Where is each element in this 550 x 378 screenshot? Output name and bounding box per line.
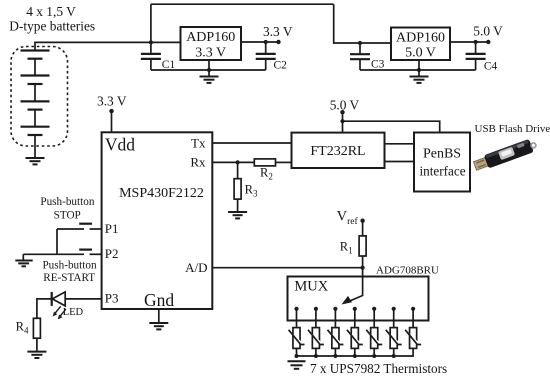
terminal 5.0V FT supply (340, 110, 344, 114)
capacitor C1 (150, 42, 152, 53)
svg-text:MSP430F2122: MSP430F2122 (119, 186, 204, 201)
regulator U2 ADP160 5.0V (391, 28, 450, 61)
wire cell3 to cell4 (34, 110, 36, 127)
thermistor RT2 (308, 328, 324, 349)
USB flash drive icon (473, 137, 538, 172)
svg-text:5.0 V: 5.0 V (405, 46, 436, 61)
wire 5.0V to FT232RL top (342, 112, 344, 132)
svg-text:ADG708BRU: ADG708BRU (376, 264, 439, 276)
svg-text:Gnd: Gnd (144, 290, 174, 310)
wire R2 to FT232RL (276, 161, 292, 163)
svg-text:P3: P3 (105, 290, 119, 305)
thermistor RT1 (289, 328, 305, 349)
ground R4 (27, 352, 46, 358)
svg-text:USB Flash Drive: USB Flash Drive (475, 123, 550, 135)
svg-text:Vdd: Vdd (105, 135, 135, 155)
wire U2 output to 5.0V terminal (450, 41, 488, 43)
wire thermistor 2 stub (315, 348, 317, 356)
svg-text:FT232RL: FT232RL (310, 144, 365, 159)
wire R3 stem (237, 162, 239, 178)
ground R3 (228, 212, 247, 218)
svg-text:C2: C2 (274, 60, 288, 72)
node rail junction 3 (333, 354, 337, 358)
node rail junction 6 (392, 354, 396, 358)
LED D1 (52, 292, 65, 306)
wire channel 4 to thermistor (354, 309, 356, 328)
wire thermistor 6 stub (393, 348, 395, 356)
resistor R3 (234, 179, 241, 199)
wire channel 6 to thermistor (393, 309, 395, 328)
IC U4 FT232RL (292, 133, 385, 168)
wire FT232RL to PenBS upper (385, 143, 415, 145)
push-button S1 STOP (57, 228, 84, 230)
wire riser to top rail (150, 4, 152, 42)
wire U1 gnd pin stem (208, 60, 210, 77)
wire R3 to ground (237, 199, 239, 212)
node U1 gnd rail junction (207, 68, 211, 72)
wire buttons to ground (22, 254, 24, 260)
node C4 junction (474, 40, 478, 44)
svg-text:P1: P1 (105, 221, 119, 236)
LED emission arrow 2 (58, 309, 66, 319)
capacitor C2 (265, 42, 267, 53)
svg-text:RE-START: RE-START (43, 272, 95, 284)
ground U2 (410, 77, 429, 83)
node rail junction 1 (295, 354, 299, 358)
wire cell2 to cell3 (34, 84, 36, 101)
node rail junction 2 (314, 354, 318, 358)
node rail junction 5 (372, 354, 376, 358)
node 5.0V branch (340, 119, 344, 123)
wire channel 3 to thermistor (334, 309, 336, 328)
node rail junction 4 (353, 354, 357, 358)
wire U1 output to 3.3V terminal (241, 41, 279, 43)
LED cathode bar (51, 292, 53, 306)
node battery rail / C1 junction (149, 40, 153, 44)
wire thermistor 3 stub (334, 348, 336, 356)
svg-text:STOP: STOP (54, 209, 81, 221)
module U5 PenBS interface (414, 133, 470, 192)
svg-text:C3: C3 (371, 59, 385, 71)
wire Rx to R2 (212, 161, 254, 163)
node A/D junction (361, 266, 365, 270)
push-button S2 RE-START (23, 253, 84, 255)
wire LED to R4 (37, 299, 52, 318)
svg-text:ADP160: ADP160 (396, 31, 445, 46)
thermistor RT5 (366, 328, 382, 349)
wire channel 7 to thermistor (412, 309, 414, 328)
node U2 gnd rail junction (417, 68, 421, 72)
svg-text:3.3 V: 3.3 V (195, 46, 226, 61)
wire channel 2 to thermistor (315, 309, 317, 328)
ground push-buttons (15, 261, 32, 267)
terminal 5.0V output (486, 40, 490, 44)
node C3 junction (358, 41, 362, 45)
node C2 junction (264, 40, 268, 44)
wire battery negative to ground (34, 135, 36, 158)
svg-text:Rx: Rx (190, 154, 206, 169)
capacitor C3 (359, 43, 361, 53)
regulator U1 ADP160 3.3V (181, 27, 242, 60)
svg-text:Tx: Tx (191, 136, 206, 151)
ground battery (26, 158, 45, 164)
battery cell 3 (21, 101, 50, 109)
svg-text:5.0 V: 5.0 V (330, 97, 360, 112)
svg-text:7 x UPS7982 Thermistors: 7 x UPS7982 Thermistors (310, 361, 447, 376)
svg-text:3.3 V: 3.3 V (263, 24, 293, 39)
LED emission arrow 1 (53, 306, 61, 316)
resistor R1 (359, 236, 366, 256)
wire R4 to ground (36, 338, 38, 351)
wire FT232RL to PenBS lower (385, 161, 415, 163)
resistor R4 (33, 318, 40, 338)
wire cell1 to cell2 (34, 59, 36, 76)
wire MCU gnd stem (158, 309, 160, 323)
node MUX channel 5 (372, 307, 376, 311)
node MUX channel 2 (314, 307, 318, 311)
wire ground rail under U2 (360, 69, 476, 71)
wire top rail (151, 3, 334, 5)
battery cell 4 (21, 127, 50, 135)
terminal 3.3V MCU supply (109, 109, 113, 113)
battery cell 2 (21, 76, 50, 85)
wire branch to PenBS top (343, 121, 440, 132)
capacitor C4 (475, 42, 477, 53)
svg-text:4 x 1,5 V: 4 x 1,5 V (26, 4, 76, 19)
ground MCU (149, 323, 168, 329)
node MUX channel 4 (353, 307, 357, 311)
node MUX channel 3 (333, 307, 337, 311)
wire channel 5 to thermistor (373, 309, 375, 328)
thermistor RT3 (328, 328, 344, 349)
terminal Vref (360, 219, 364, 223)
svg-text:P2: P2 (105, 246, 119, 261)
svg-text:Push-button: Push-button (42, 260, 96, 272)
node MUX channel 1 (294, 307, 298, 311)
MCU U3 MSP430F2122 (102, 132, 213, 309)
svg-text:5.0 V: 5.0 V (473, 24, 503, 39)
wire R1 to A/D node (362, 256, 364, 268)
wire 3.3V to Vdd (111, 111, 113, 132)
MUX selector wire with arrow (342, 268, 363, 305)
thermistor RT4 (347, 328, 363, 349)
wire U2 gnd pin stem (418, 60, 420, 77)
svg-text:MUX: MUX (294, 279, 328, 295)
battery cell 1 (21, 51, 50, 59)
node MUX channel 6 (392, 307, 396, 311)
wire thermistor 5 stub (373, 348, 375, 356)
thermistor RT6 (386, 328, 402, 349)
wire P3 to LED (65, 298, 101, 300)
svg-text:interface: interface (419, 164, 465, 179)
wire Tx to FT232RL (212, 142, 291, 144)
ground U1 (200, 77, 219, 83)
resistor R2 (254, 159, 275, 166)
wire A/D to R1 node (212, 267, 362, 269)
ground thermistors (288, 361, 306, 369)
terminal 3.3V output (276, 40, 280, 44)
wire top rail drop to regulator 2 input (334, 4, 391, 43)
svg-text:LED: LED (63, 307, 84, 318)
wire ground rail under U1 (151, 69, 266, 71)
wire thermistor bottom rail (297, 348, 414, 356)
svg-text:3.3 V: 3.3 V (97, 94, 127, 109)
battery pack BT1 dashed enclosure (11, 47, 68, 147)
thermistor RT7 (405, 328, 421, 349)
svg-text:A/D: A/D (185, 260, 207, 275)
svg-text:D-type batteries: D-type batteries (9, 19, 95, 34)
svg-text:PenBS: PenBS (423, 147, 461, 162)
wire S1 to S2 left link (56, 229, 58, 254)
node MUX channel 7 (411, 307, 415, 311)
wire thermistor 4 stub (354, 348, 356, 356)
MUX U6 ADG708BRU (288, 277, 429, 321)
wire channel 1 to thermistor (296, 309, 298, 328)
wire Vref to R1 (362, 221, 364, 236)
node Rx / R3 junction (236, 160, 240, 164)
svg-text:C4: C4 (484, 60, 498, 72)
svg-text:ADP160: ADP160 (186, 30, 235, 45)
wire battery positive rail to regulator 1 input (35, 42, 181, 50)
svg-text:Push-button: Push-button (40, 196, 94, 208)
